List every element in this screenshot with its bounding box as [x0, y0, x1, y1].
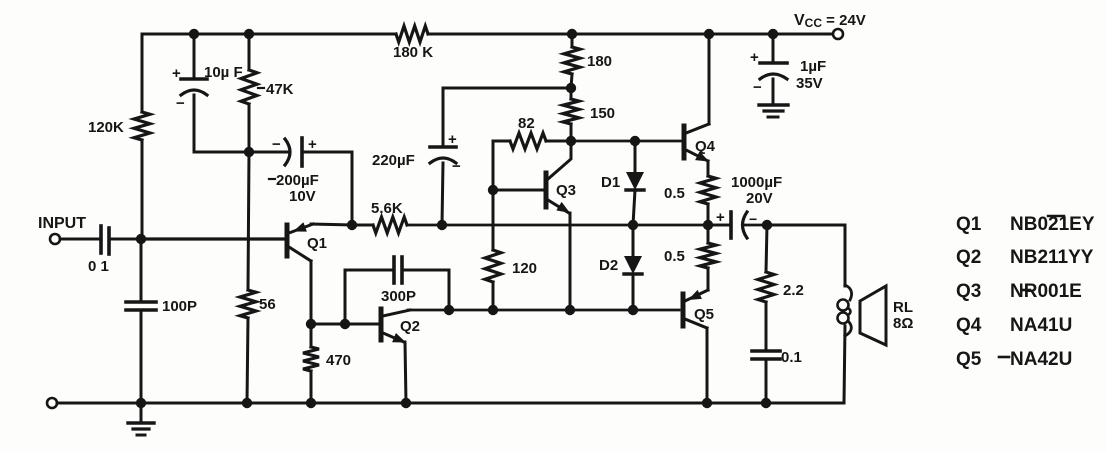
svg-text:Q3: Q3: [556, 182, 576, 199]
capacitor 300P plate2: [400, 257, 404, 283]
resistor 47K: [241, 70, 257, 104]
resistor 5.6K: [373, 217, 407, 233]
speaker horn: [860, 286, 886, 345]
svg-text:+: +: [172, 65, 181, 82]
wire 82 left leg: [493, 140, 510, 143]
node 150-82: [566, 136, 576, 146]
wire D1 top leg: [634, 141, 637, 172]
svg-text:56: 56: [259, 296, 276, 313]
svg-text:NB211YY: NB211YY: [1010, 247, 1094, 268]
svg-text:Q2: Q2: [956, 247, 981, 268]
svg-text:−: −: [753, 79, 762, 96]
svg-text:Q5: Q5: [694, 306, 714, 323]
node bottom-100P: [136, 398, 146, 408]
wire main to 0.5 bottom: [707, 225, 710, 243]
capacitor 220uF curved plate: [430, 158, 456, 163]
node bottom-470: [306, 398, 316, 408]
Q2 emitter diagonal: [383, 333, 404, 342]
wire Q4 emitter to 0.5: [707, 161, 710, 176]
capacitor 1uF plate curved: [760, 74, 787, 79]
wire 10uF to 47K node: [194, 151, 249, 154]
resistor 470: [303, 347, 319, 371]
svg-text:Q1: Q1: [956, 214, 982, 235]
transistor Q5 bar: [681, 294, 686, 326]
svg-text:300P: 300P: [381, 288, 416, 305]
wire Q1 emitter to node: [311, 224, 352, 225]
svg-text:−: −: [272, 136, 281, 153]
svg-text:5.6K: 5.6K: [371, 200, 403, 217]
wire rail to 10uF: [193, 34, 196, 79]
capacitor 220uF straight plate: [430, 145, 456, 149]
Q1 emitter arrow: [293, 222, 307, 231]
Q4 collector diagonal: [686, 124, 709, 133]
svg-text:Q4: Q4: [695, 138, 716, 155]
wire rail to 47K: [248, 34, 251, 70]
svg-text:−: −: [176, 95, 185, 112]
wire Q2 emitter down: [405, 342, 406, 403]
wire 1000uF right: [745, 224, 767, 227]
wire out node down: [766, 225, 767, 272]
svg-text:470: 470: [326, 352, 351, 369]
wire 300P left leg: [345, 270, 394, 324]
wire Q5 collector down: [706, 328, 709, 403]
node rail-10uF: [189, 29, 199, 39]
Q5 emitter arrow: [688, 290, 702, 300]
wire 2.2 to 0.1: [765, 302, 768, 351]
speaker coil: [845, 285, 852, 300]
capacitor 100P plate2: [126, 308, 156, 312]
Q3 collector diagonal: [548, 141, 571, 179]
VCC terminal: [833, 29, 843, 39]
svg-text:220µF: 220µF: [372, 152, 415, 169]
resistor 120K: [134, 112, 150, 140]
wire 120 to join: [492, 282, 495, 310]
wire 470 to bottom: [310, 371, 313, 403]
capacitor 100P plate1: [126, 300, 156, 304]
resistor 82: [510, 133, 546, 149]
wire Q3 emitter down: [569, 213, 572, 310]
transistor Q3 bar: [544, 173, 549, 207]
node D1-top: [630, 136, 640, 146]
svg-text:Q2: Q2: [400, 318, 420, 335]
capacitor 200uF straight plate: [300, 138, 304, 166]
resistor 0.5 bottom: [700, 243, 716, 268]
node 300P-right-join: [444, 305, 454, 315]
wire main to 1000uF: [708, 224, 729, 227]
node bottom-56: [242, 398, 252, 408]
node 120-bottom: [488, 305, 498, 315]
Q3 emitter diagonal: [548, 200, 569, 213]
wire rail to 1uF: [772, 34, 775, 63]
node rail-1uF: [768, 29, 778, 39]
wire bottom rail: [57, 402, 843, 405]
svg-text:NR001E: NR001E: [1010, 281, 1082, 302]
node bottom-Q2e: [401, 398, 411, 408]
svg-text:+: +: [750, 49, 759, 66]
wire main line mid: [407, 224, 729, 227]
ground main: [128, 421, 154, 424]
svg-text:120: 120: [512, 260, 537, 277]
ground 1uF: [759, 103, 788, 106]
wire down to 120: [492, 190, 495, 250]
svg-text:180 K: 180 K: [393, 44, 433, 61]
svg-text:0.5: 0.5: [664, 185, 685, 202]
wire D1 to main: [633, 190, 635, 225]
capacitor 10uF plate curved: [181, 90, 207, 95]
svg-text:8Ω: 8Ω: [893, 315, 913, 332]
wire 120K to input node: [141, 140, 144, 239]
node rail-47K: [244, 29, 254, 39]
node 220uF-main: [437, 220, 447, 230]
node rail-180: [567, 29, 577, 39]
wire node down crossing input line: [248, 152, 249, 290]
svg-text:+: +: [716, 209, 725, 226]
node 47K-200uF: [244, 147, 254, 157]
wire speaker bottom: [844, 326, 845, 403]
resistor 2.2: [758, 272, 774, 302]
wire D2 to join: [632, 274, 635, 310]
wire node to 200uF: [249, 151, 288, 154]
node rail-Q4: [704, 29, 714, 39]
input terminal: [50, 234, 60, 244]
svg-text:10V: 10V: [289, 188, 316, 205]
capacitor 0.1 out plate2: [752, 357, 780, 361]
wire 47K to node: [248, 104, 251, 152]
svg-text:200µF: 200µF: [276, 172, 319, 189]
svg-text:35V: 35V: [796, 75, 823, 92]
svg-text:47K: 47K: [266, 81, 294, 98]
Q4 emitter arrow: [695, 151, 709, 161]
capacitor 1000uF straight plate: [729, 212, 733, 238]
svg-text:RL: RL: [893, 299, 913, 316]
svg-text:Q1: Q1: [307, 235, 327, 252]
node Q3e-join: [565, 305, 575, 315]
svg-text:0.5: 0.5: [664, 248, 685, 265]
wire top VCC rail right segment: [428, 33, 838, 36]
diode D2: [624, 256, 642, 274]
wire 100P to bottom rail: [140, 310, 143, 403]
wire 200uF down to emitter node: [351, 152, 354, 225]
node Q3 base: [488, 185, 498, 195]
resistor 180K (inline in top rail): [396, 26, 428, 42]
node out: [762, 220, 772, 230]
Q4 emitter diagonal: [686, 150, 708, 161]
wire node to 5.6K: [352, 224, 373, 227]
node 180-150: [566, 83, 576, 93]
node D-main: [628, 220, 638, 230]
diode D1: [626, 172, 644, 190]
wire 1uF to ground: [772, 79, 775, 105]
wire Q4 collector up: [708, 34, 711, 124]
wire 0.1 to bottom rail: [765, 359, 768, 403]
svg-text:100P: 100P: [162, 298, 197, 315]
wire 300P right leg: [402, 270, 449, 310]
capacitor 300P plate1: [392, 257, 396, 283]
node Q1c-Q2b: [306, 319, 316, 329]
svg-text:1µF: 1µF: [800, 58, 826, 75]
wire 0.5 to main: [707, 204, 710, 225]
wire 200uF right: [302, 151, 352, 154]
wire D1 node to Q4 base: [635, 140, 682, 143]
capacitor 0.1 out plate1: [752, 349, 780, 353]
svg-text:0.1: 0.1: [781, 349, 802, 366]
node Q4e-main: [703, 220, 713, 230]
svg-text:Q5: Q5: [956, 349, 982, 370]
Q2 emitter arrow: [392, 333, 406, 343]
resistor 150: [563, 99, 579, 124]
svg-text:Q3: Q3: [956, 281, 981, 302]
capacitor 1uF plate straight: [760, 61, 787, 65]
svg-text:180: 180: [587, 53, 612, 70]
wire Q3 base: [493, 189, 544, 192]
Q2 collector diagonal: [383, 310, 410, 316]
resistor 180: [564, 47, 580, 74]
wire 0.5 to Q5 emitter: [707, 268, 710, 290]
capacitor 0.1 input plate1: [99, 226, 103, 253]
capacitor 0.1 input plate2: [107, 228, 111, 254]
Q5 collector diagonal: [685, 319, 707, 328]
svg-text:D1: D1: [601, 174, 620, 191]
Q1 collector diagonal: [289, 247, 311, 261]
wire 150 node to D1: [571, 140, 635, 143]
wire 150 stubs: [570, 88, 573, 99]
wire top VCC rail left segment: [142, 33, 396, 36]
wire 56 to bottom rail: [247, 318, 248, 403]
transistor Q4 bar: [682, 126, 687, 158]
svg-text:0 1: 0 1: [88, 258, 109, 275]
svg-text:+: +: [448, 131, 457, 148]
wire 10uF down: [193, 95, 196, 152]
svg-text:INPUT: INPUT: [38, 215, 86, 232]
resistor 56: [240, 290, 256, 318]
node 300P-left: [340, 319, 350, 329]
bottom-left terminal: [47, 398, 57, 408]
wire Q1 collector down: [310, 261, 313, 324]
wire 82 to 180/150 node: [546, 140, 571, 143]
capacitor 10uF plate straight: [181, 77, 207, 81]
wire 220uF to main line: [442, 163, 443, 225]
svg-text:120K: 120K: [88, 119, 124, 136]
svg-text:1000µF: 1000µF: [731, 174, 782, 191]
svg-text:150: 150: [590, 105, 615, 122]
wire left rail drop to 120K: [141, 34, 144, 112]
node bottom-C0.1: [761, 398, 771, 408]
wire input to C-0.1: [60, 238, 99, 241]
svg-text:NA41U: NA41U: [1010, 315, 1072, 336]
svg-text:20V: 20V: [746, 190, 773, 207]
svg-text:NA42U: NA42U: [1010, 349, 1072, 370]
capacitor 1000uF curved plate: [743, 212, 748, 238]
wire input node down to 100P: [140, 239, 143, 302]
wire rail to 180: [571, 34, 574, 47]
svg-text:+: +: [308, 136, 317, 153]
capacitor 200uF curved plate: [285, 139, 290, 165]
node D2-join: [628, 305, 638, 315]
wire out to speaker top: [767, 225, 845, 286]
transistor Q2 bar: [379, 309, 384, 340]
resistor 120: [485, 250, 501, 282]
svg-text:Q4: Q4: [956, 315, 982, 336]
transistor Q1 bar: [285, 225, 290, 256]
Q5 emitter diagonal: [685, 290, 708, 301]
node input junction: [136, 234, 146, 244]
wire to 470: [310, 324, 313, 347]
wire Q2 collector line: [408, 309, 679, 312]
node bottom-Q5c: [702, 398, 712, 408]
resistor 0.5 top: [700, 176, 716, 204]
wire input node to Q1 base: [141, 237, 285, 240]
wire C-0.1 to node: [109, 238, 141, 241]
wire Q1c node to Q2 base: [311, 323, 379, 326]
Q1 emitter diagonal: [289, 224, 313, 233]
wire 180/150 node to 220uF top: [443, 88, 571, 147]
svg-text:82: 82: [518, 115, 535, 132]
node Q1-5.6K: [347, 220, 357, 230]
wire 180 to node: [571, 74, 572, 88]
svg-text:2.2: 2.2: [783, 282, 804, 299]
svg-text:D2: D2: [599, 257, 618, 274]
Q3 emitter arrow: [556, 202, 570, 213]
svg-text:−: −: [452, 158, 461, 175]
wire 82 left down: [492, 141, 495, 190]
wire D2 top leg: [632, 225, 635, 256]
